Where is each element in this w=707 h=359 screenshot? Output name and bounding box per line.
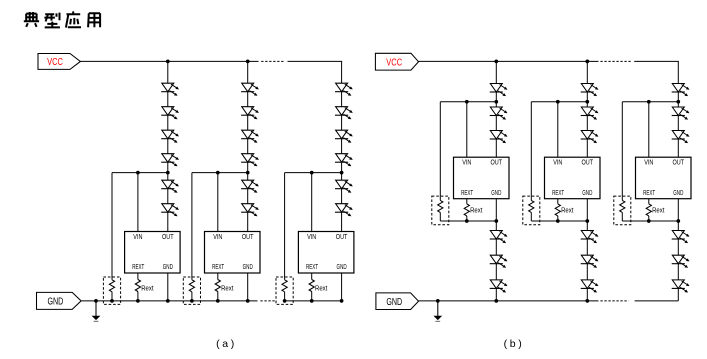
svg-text:GND: GND: [337, 264, 347, 271]
resistor bypass R b2 (optional): [529, 200, 534, 212]
wire VIN drop a2: [217, 173, 219, 232]
wire REXT pin a1: [137, 273, 139, 280]
junction tap/VIN a2: [216, 171, 220, 175]
wire Rext a3 to rail: [311, 292, 313, 301]
svg-text:REXT: REXT: [306, 264, 318, 271]
junction tap/LED string b1: [494, 100, 498, 104]
wire VCC top rail (a) left section: [80, 60, 258, 62]
wire VIN tap a2 horizontal: [192, 172, 248, 174]
wire GND pin a2: [247, 273, 249, 301]
op-amp/driver IC U3 (a): [298, 232, 354, 274]
junction connector / GND string b3: [676, 219, 680, 223]
LED Da3-2: [335, 107, 353, 120]
junction tap/LED string a2: [246, 171, 250, 175]
resistor bypass R b1 (optional): [438, 200, 443, 212]
LED Db3-1: [672, 84, 690, 97]
LED Db2-6: [581, 280, 599, 293]
wire GND bottom rail (a) left section: [81, 300, 257, 302]
wire bypass branch lower a1: [111, 292, 113, 301]
junction ground stub (b): [436, 299, 440, 303]
LED Db3-6: [672, 280, 690, 293]
svg-text:OUT: OUT: [162, 234, 174, 241]
LED Db3-4: [672, 231, 690, 244]
LED Da2-1: [241, 83, 259, 96]
wire REXT pin a2: [217, 273, 219, 280]
wire VIN drop a1: [137, 173, 139, 232]
wire VCC top rail (b) right section: [634, 60, 679, 62]
junction Rext b1 / connector: [465, 219, 469, 223]
LED Db3-2: [672, 107, 690, 120]
LED Db2-4: [581, 231, 599, 244]
ground flag GND (b): [376, 293, 419, 310]
LED Da2-3: [241, 130, 259, 143]
wire VIN drop a3: [311, 173, 313, 232]
LED Db1-3: [490, 131, 508, 144]
wire lower LED string b1 vertical: [495, 199, 497, 301]
svg-text:OUT: OUT: [336, 234, 348, 241]
junction lower string b2 / GND rail: [585, 299, 589, 303]
svg-text:(b): (b): [504, 338, 525, 350]
LED Da1-5: [161, 180, 179, 193]
wire bypass branch lower b1: [439, 212, 441, 221]
junction connector / GND string b2: [585, 219, 589, 223]
junction connector / GND string b1: [494, 219, 498, 223]
optional resistor dashed box b1: [432, 196, 449, 225]
junction Rext a3 / GND rail: [310, 299, 314, 303]
resistor Rext a3: [309, 280, 314, 292]
junction Rext b3 / connector: [647, 219, 651, 223]
wire REXT pin b2: [557, 199, 559, 204]
svg-text:VIN: VIN: [462, 160, 471, 167]
junction tap/LED string a1: [166, 171, 170, 175]
wire REXT pin b3: [648, 199, 650, 204]
wire GND pin a3: [341, 273, 343, 301]
wire bypass branch upper b2: [530, 102, 532, 201]
wire REXT pin a3: [311, 273, 313, 280]
ground symbol (b): [433, 301, 442, 321]
junction tap/LED string b2: [585, 100, 589, 104]
wire bypass branch upper a3: [284, 173, 286, 280]
junction tap/VIN b1: [465, 100, 469, 104]
junction tap/VIN b3: [647, 100, 651, 104]
LED Da3-6: [335, 204, 353, 217]
resistor Rext a1: [135, 280, 140, 292]
svg-text:REXT: REXT: [212, 264, 224, 271]
resistor Rext b1: [464, 204, 469, 216]
wire lower LED string b3 vertical: [677, 199, 679, 301]
wire VCC top rail (a) (continuation dashes): [261, 60, 284, 62]
wire REXT pin b1: [466, 199, 468, 204]
wire VCC top rail (b) (continuation dashes): [600, 60, 631, 62]
wire LED string a2 vertical: [247, 61, 249, 231]
LED Db2-5: [581, 255, 599, 268]
junction bypass R a2 / GND rail: [190, 299, 194, 303]
svg-text:GND: GND: [491, 190, 501, 197]
junction top rail / LED string b2: [585, 60, 589, 64]
junction top rail / LED string a1: [166, 60, 170, 64]
wire local ground connector b1: [440, 220, 496, 222]
wire GND bottom rail (a) right section: [285, 300, 342, 302]
wire local ground connector b2: [531, 220, 587, 222]
svg-text:GND: GND: [243, 264, 253, 271]
svg-text:OUT: OUT: [491, 160, 503, 167]
wire bypass branch upper b3: [621, 102, 623, 201]
svg-text:GND: GND: [163, 264, 173, 271]
svg-text:Rext: Rext: [652, 206, 665, 215]
svg-text:REXT: REXT: [643, 190, 655, 197]
wire VCC top rail (b) left section: [419, 60, 599, 62]
LED Da1-4: [161, 154, 179, 167]
LED Da3-1: [335, 83, 353, 96]
junction GND pin a1 / GND rail: [166, 299, 170, 303]
power flag VCC (b): [375, 53, 418, 70]
LED Db3-5: [672, 255, 690, 268]
junction top rail / LED string a2: [246, 60, 250, 64]
wire upper LED string b2 vertical: [586, 61, 588, 157]
wire bypass branch upper b1: [439, 102, 441, 201]
svg-text:Rext: Rext: [470, 206, 483, 215]
svg-text:VCC: VCC: [386, 57, 402, 68]
svg-text:Rext: Rext: [141, 283, 154, 292]
ground flag GND (a): [37, 292, 82, 309]
junction tap/VIN a3: [310, 171, 314, 175]
wire Rext a1 to rail: [137, 292, 139, 301]
junction tap/LED string a3: [340, 171, 344, 175]
svg-text:GND: GND: [47, 297, 63, 308]
wire VIN tap b2 horizontal: [531, 101, 587, 103]
svg-text:VIN: VIN: [553, 160, 562, 167]
wire lower LED string b2 vertical: [586, 199, 588, 301]
wire VCC top rail (a) right section: [288, 60, 343, 62]
wire upper LED string b1 vertical: [495, 61, 497, 157]
wire local ground connector b3: [622, 220, 678, 222]
LED Da1-6: [161, 204, 179, 217]
svg-text:VIN: VIN: [133, 234, 142, 241]
junction GND pin a3 / GND rail: [340, 299, 344, 303]
junction ground stub (a): [94, 299, 98, 303]
wire VIN drop b3: [648, 102, 650, 158]
LED Db1-1: [490, 84, 508, 97]
LED Db1-5: [490, 255, 508, 268]
resistor bypass R b3 (optional): [620, 200, 625, 212]
resistor Rext a2: [215, 280, 220, 292]
resistor bypass R a2 (optional): [189, 280, 194, 292]
wire bypass branch lower a3: [284, 292, 286, 301]
op-amp/driver IC U1 (b): [454, 157, 510, 199]
LED Da1-2: [161, 107, 179, 120]
wire VIN tap b3 horizontal: [622, 101, 678, 103]
wire bypass branch lower b2: [530, 212, 532, 221]
ground symbol (a): [92, 301, 101, 321]
wire LED string a1 vertical: [167, 61, 169, 231]
optional resistor dashed box a2: [183, 277, 200, 304]
svg-text:GND: GND: [582, 190, 592, 197]
wire VIN drop b2: [557, 102, 559, 158]
svg-text:Rext: Rext: [561, 206, 574, 215]
junction Rext b2 / connector: [556, 219, 560, 223]
junction Rext a2 / GND rail: [216, 299, 220, 303]
LED Db2-2: [581, 107, 599, 120]
junction bypass R a1 / GND rail: [110, 299, 114, 303]
LED Da2-6: [241, 204, 259, 217]
optional resistor dashed box a3: [276, 277, 293, 304]
wire upper LED string b3 vertical: [677, 61, 679, 157]
junction tap/LED string b3: [676, 100, 680, 104]
wire GND pin a1: [167, 273, 169, 301]
svg-text:GND: GND: [673, 190, 683, 197]
LED Da3-3: [335, 130, 353, 143]
junction lower string b1 / GND rail: [494, 299, 498, 303]
optional resistor dashed box a1: [103, 277, 120, 304]
LED Db3-3: [672, 131, 690, 144]
LED Da2-5: [241, 180, 259, 193]
LED Db1-2: [490, 107, 508, 120]
resistor bypass R a1 (optional): [109, 280, 114, 292]
junction GND pin a2 / GND rail: [246, 299, 250, 303]
resistor Rext b3: [646, 204, 651, 216]
power flag VCC (a): [38, 54, 80, 70]
svg-text:OUT: OUT: [673, 160, 685, 167]
wire VIN tap b1 horizontal: [440, 101, 496, 103]
svg-text:OUT: OUT: [242, 234, 254, 241]
wire GND bottom rail (b) right section: [635, 300, 679, 302]
op-amp/driver IC U2 (b): [545, 157, 601, 199]
op-amp/driver IC U1 (a): [125, 232, 181, 274]
svg-text:VIN: VIN: [213, 234, 222, 241]
wire bypass branch upper a1: [111, 173, 113, 280]
LED Db2-1: [581, 84, 599, 97]
svg-text:VIN: VIN: [307, 234, 316, 241]
op-amp/driver IC U3 (b): [636, 157, 692, 199]
wire GND bottom rail (b) left section: [419, 300, 599, 302]
svg-text:Rext: Rext: [315, 283, 328, 292]
wire VIN drop b1: [466, 102, 468, 158]
optional resistor dashed box b3: [614, 196, 631, 225]
wire bypass branch lower a2: [191, 292, 193, 301]
svg-text:(a): (a): [216, 338, 237, 350]
optional resistor dashed box b2: [523, 196, 540, 225]
junction bypass R a3 / GND rail: [283, 299, 287, 303]
wire LED string a3 vertical: [341, 61, 343, 231]
svg-text:REXT: REXT: [552, 190, 564, 197]
svg-text:VIN: VIN: [644, 160, 653, 167]
LED Db1-4: [490, 231, 508, 244]
wire VIN tap a3 horizontal: [285, 172, 342, 174]
title text 典型应用 (drawn strokes): [24, 11, 100, 27]
wire Rext b2 lower lead: [557, 216, 559, 221]
op-amp/driver IC U2 (a): [205, 232, 261, 274]
svg-text:REXT: REXT: [461, 190, 473, 197]
svg-text:VCC: VCC: [47, 57, 63, 68]
resistor Rext b2: [555, 204, 560, 216]
LED Da3-4: [335, 154, 353, 167]
resistor bypass R a3 (optional): [282, 280, 287, 292]
LED Da1-1: [161, 83, 179, 96]
LED Da3-5: [335, 180, 353, 193]
wire Rext b3 lower lead: [648, 216, 650, 221]
svg-text:GND: GND: [386, 297, 402, 308]
junction top rail / LED string b1: [494, 60, 498, 64]
LED Da2-2: [241, 107, 259, 120]
svg-text:REXT: REXT: [132, 264, 144, 271]
LED Da2-4: [241, 154, 259, 167]
svg-text:Rext: Rext: [221, 283, 234, 292]
wire bypass branch lower b3: [621, 212, 623, 221]
junction tap/VIN b2: [556, 100, 560, 104]
junction Rext a1 / GND rail: [136, 299, 140, 303]
wire VIN tap a1 horizontal: [112, 172, 168, 174]
LED Db2-3: [581, 131, 599, 144]
wire bypass branch upper a2: [191, 173, 193, 280]
junction tap/VIN a1: [136, 171, 140, 175]
wire GND bottom rail (a) (continuation dashes): [260, 300, 276, 302]
wire Rext a2 to rail: [217, 292, 219, 301]
wire Rext b1 lower lead: [466, 216, 468, 221]
LED Da1-3: [161, 130, 179, 143]
wire GND bottom rail (b) (continuation dashes): [600, 300, 628, 302]
LED Db1-6: [490, 280, 508, 293]
svg-text:OUT: OUT: [582, 160, 594, 167]
